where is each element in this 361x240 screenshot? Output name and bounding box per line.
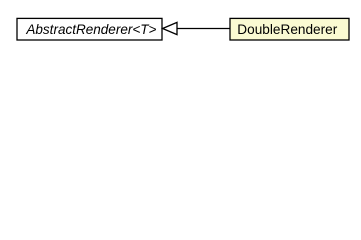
class box AbstractRenderer<T> [17,18,162,40]
inheritance arrowhead (hollow triangle) [163,22,177,34]
svg-text:AbstractRenderer<T>: AbstractRenderer<T> [25,21,156,37]
background [0,0,361,59]
class box DoubleRenderer [230,18,349,40]
svg-text:DoubleRenderer: DoubleRenderer [237,21,337,37]
wire connector line [177,28,230,30]
